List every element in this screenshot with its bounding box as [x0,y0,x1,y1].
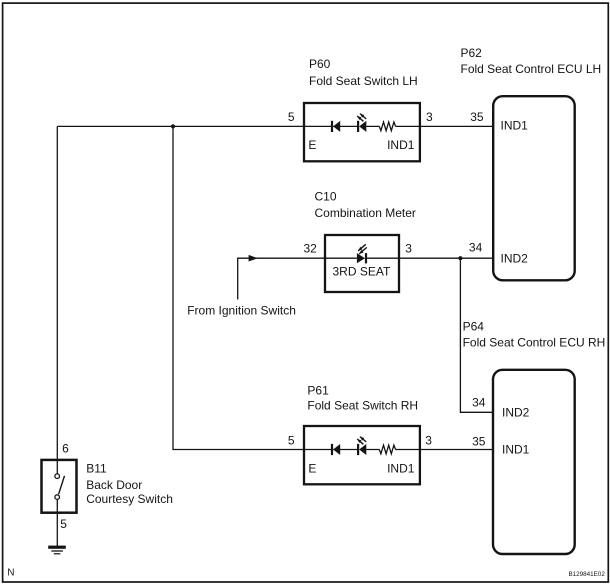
node junction J1 [171,124,175,128]
svg-text:Back Door: Back Door [86,478,142,492]
svg-text:5: 5 [60,517,67,531]
svg-text:B129841E02: B129841E02 [568,571,605,578]
svg-text:IND1: IND1 [387,461,415,475]
svg-text:IND1: IND1 [501,119,529,133]
label P61 [307,384,418,413]
svg-text:IND1: IND1 [387,138,415,152]
wire meter output to P62 IND2 [399,257,493,259]
wire arrow into meter [249,255,258,262]
svg-text:IND2: IND2 [502,405,530,419]
svg-text:P61: P61 [307,384,329,398]
switch B11 blade [59,476,65,494]
wire junction J2 down to P64 IND2 [460,258,492,412]
svg-text:Courtesy Switch: Courtesy Switch [86,492,173,506]
label C10 [315,190,416,220]
resistor in P60 [379,122,395,131]
svg-text:6: 6 [62,441,69,455]
svg-text:34: 34 [469,240,483,254]
svg-text:IND1: IND1 [502,442,530,456]
svg-text:5: 5 [288,433,295,447]
svg-text:3: 3 [425,433,432,447]
svg-text:34: 34 [472,396,486,410]
svg-text:3RD SEAT: 3RD SEAT [333,265,391,279]
LED in P61 [357,437,366,456]
switch P61 box [304,426,420,484]
svg-text:Fold Seat Control ECU RH: Fold Seat Control ECU RH [463,335,606,349]
svg-text:35: 35 [472,434,486,448]
svg-text:E: E [308,461,316,475]
svg-text:E: E [308,138,316,152]
label P60 [309,57,418,88]
svg-text:N: N [7,567,14,578]
LED in C10 [357,244,367,263]
svg-text:C10: C10 [315,190,337,204]
ECU P62 box [493,96,575,280]
node junction J2 [458,256,462,260]
wire top horizontal to P60 [57,125,304,127]
label P62 [461,46,602,76]
wire P61 output to P64 IND1 [420,449,493,451]
node trunk wire left [56,126,58,458]
wire from ignition switch [238,258,325,299]
switch B11 box [42,460,77,513]
wire P60 output to P62 IND1 [420,125,493,127]
switch P60 box [304,103,420,161]
label P64 [463,319,606,349]
diode D1 in P60 [331,121,340,132]
svg-text:P64: P64 [463,319,485,333]
svg-text:35: 35 [470,110,484,124]
LED in P60 [357,114,366,132]
svg-text:P62: P62 [461,46,483,60]
svg-text:32: 32 [304,241,318,255]
resistor in P61 [379,445,395,454]
svg-text:Fold Seat Control ECU LH: Fold Seat Control ECU LH [461,62,602,76]
ground [48,546,66,554]
svg-text:5: 5 [288,110,295,124]
wire B11 to ground [56,513,58,546]
label B11 [86,461,173,506]
svg-text:From Ignition Switch: From Ignition Switch [187,304,296,318]
svg-text:B11: B11 [86,461,107,475]
svg-text:Combination Meter: Combination Meter [315,206,416,220]
svg-text:P60: P60 [309,57,331,71]
combination meter C10 box [325,235,399,292]
svg-text:3: 3 [405,241,412,255]
svg-text:IND2: IND2 [501,251,529,265]
svg-text:Fold Seat Switch LH: Fold Seat Switch LH [309,74,418,88]
ECU P64 box [493,370,575,554]
switch B11 contacts [55,474,60,500]
wire junction J1 down to P61 row [173,126,304,449]
svg-text:Fold Seat Switch RH: Fold Seat Switch RH [307,399,418,413]
diode D2 in P61 [331,444,340,455]
svg-text:3: 3 [426,110,433,124]
